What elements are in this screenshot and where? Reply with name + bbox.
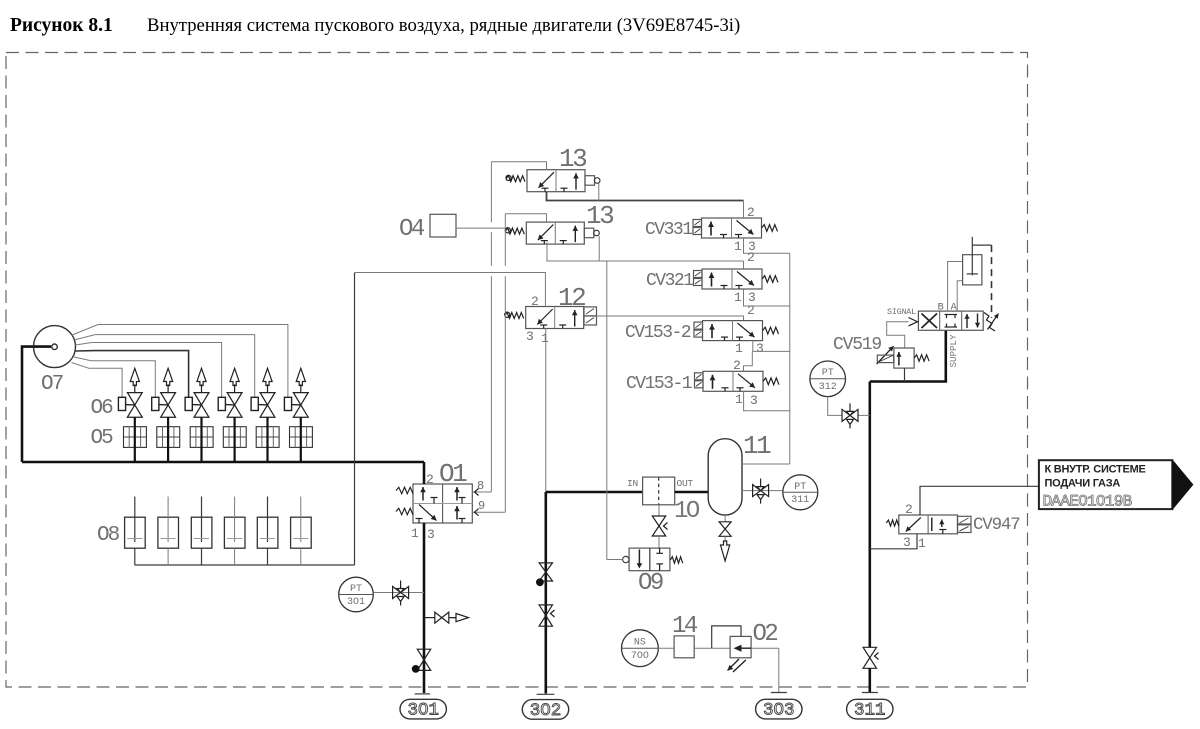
line tag 301 [400,699,446,719]
wire: valve 01 down to 301 [423,523,426,693]
wire: bypass over regulator 02 [712,626,741,648]
wire: valve 13 upper output to CV331 port 2 [547,192,744,201]
wire: CV153-1 port 2 hook to exhaust of CV153-2 [744,351,753,371]
svg-text:1: 1 [734,290,742,305]
wire: valve 06-2 down through 05 to manifold [167,417,169,462]
wire: CV153-2 port 3 to exhaust header [753,341,790,352]
wire: 311 riser bottom [868,668,871,692]
gauge valve at PT301 [393,587,401,599]
wire: rod top line [972,244,991,246]
svg-text:B: B [938,302,944,314]
svg-text:8: 8 [477,479,484,493]
svg-text:PT: PT [822,368,834,379]
wire: filter bottom to drain valve [658,505,660,516]
vent arrow 301 branch [456,614,469,622]
dashed pilot line from cylinder to relief [991,245,993,318]
svg-text:O5: O5 [91,427,114,450]
svg-text:2: 2 [747,303,755,318]
wire: port A to cylinder [957,281,962,311]
line tag 303 [756,699,802,719]
svg-text:A: A [951,302,958,314]
wire: valve 01 port 8 to x=491 [472,491,491,493]
pressure transmitter PT 312 [810,361,846,397]
svg-text:3: 3 [903,535,911,550]
drain valve 301 branch [435,612,442,623]
wire: CV947 port 1 from supply riser [870,534,917,549]
svg-text:1: 1 [918,536,926,551]
wire: valve 06-1 down through 05 to manifold [134,417,136,462]
filter 10 [643,477,675,505]
wire: 14 to regulator 02 [694,647,730,649]
svg-text:2: 2 [747,205,755,220]
valve 12 (pilot valve) [526,307,584,329]
valve 13 (lower pilot valve) [526,222,584,244]
speed switch NS 700 [622,630,659,667]
wire: actuator drop of valve 13 upper [598,183,600,200]
wire: thick bottom manifold [22,461,424,464]
wire: 08-5 to return manifold [267,548,269,565]
wire: NS700 to device 14 [658,647,674,649]
valve 06-3 (shut-off valve with vent arrow) [194,393,209,405]
wire: thick supply to pilot-operated valve [870,330,946,381]
valve 06-1 (shut-off valve with vent arrow) [127,393,142,405]
wire: valve 13 lower output to CV321 port 2 [547,242,744,261]
shut-off valve lower on 302 [539,605,552,616]
starting air cylinder unit 08-2 [158,517,179,548]
svg-text:3O2: 3O2 [530,701,562,721]
valve 06-6 (shut-off valve with vent arrow) [293,393,308,405]
svg-text:3O3: 3O3 [763,701,795,721]
svg-text:2: 2 [531,294,539,309]
wire: vertical x=491 (valve 13 upper pilot to valve 01 port 8) [490,162,492,223]
svg-text:NS: NS [634,638,646,649]
wire: pilot line from 07 to valve 06-6 [72,325,288,398]
valve 13 (upper pilot valve) [527,170,585,192]
solenoid valve CV947 [899,515,958,534]
springs of valve 01 [396,487,413,493]
wire: filter OUT to vessel 11 [675,491,709,494]
svg-text:1O: 1O [674,498,700,525]
shut-off valve on 301 line [417,649,430,660]
svg-text:312: 312 [819,382,837,393]
pressure transmitter PT 301 [339,577,374,612]
starting air cylinder unit 08-6 [291,517,312,548]
svg-text:1: 1 [734,239,742,254]
pilot port circle of 09 [623,556,629,562]
gauge valve at PT312 [842,409,850,421]
air vessel 11 [708,439,742,515]
svg-text:2: 2 [747,250,755,265]
wire: exhaust header x=790 down to vessel 11 [789,253,791,464]
starting air cylinder unit 08-5 [257,517,278,548]
line tag 302 [522,700,568,720]
wire: valve 12 port 1 down to 302 junction [545,329,547,493]
wire: 04 to line x=505 [456,227,505,229]
solenoid valve CV331 [702,218,762,238]
flame arrestor 05-6 [290,427,313,448]
wire: CV321 port 2 stub [743,261,745,269]
wire: vessel to exhaust header [742,463,790,465]
svg-text:3: 3 [427,527,435,542]
pilot actuator of valve 13 upper [585,176,595,186]
solenoid of CV947 [958,516,972,524]
svg-text:ПОДАЧИ ГАЗА: ПОДАЧИ ГАЗА [1045,478,1121,490]
svg-text:O1: O1 [439,459,467,489]
wire: pilot line from 07 to valve 06-3 [75,351,188,398]
svg-text:CV153-2: CV153-2 [625,323,691,343]
svg-text:O7: O7 [41,373,63,396]
svg-text:3: 3 [526,329,534,344]
svg-text:11: 11 [743,431,771,461]
svg-text:CV519: CV519 [833,335,881,355]
wire: supply header into valve 12 port 2 [355,273,546,307]
shut-off valve on 311 riser [863,647,876,658]
wire: vertical x=505 (valve 13 lower pilot to valve 01 port 9) [504,214,506,266]
flame arrestor 05-3 [190,427,213,448]
svg-text:O6: O6 [91,397,114,420]
device 14 [674,636,694,658]
relief arrow of 02 [728,659,746,672]
wire: pilot line from 07 to valve 06-2 [74,357,155,397]
valve 06-4 (shut-off valve with vent arrow) [227,393,242,405]
wire: pilot of valve 13 upper from line x=491 [491,162,546,170]
gauge valve at PT311 [753,485,761,497]
wire: CV519 to supply line [904,368,906,381]
svg-text:9: 9 [478,499,485,513]
banner: to internal gas supply system [1039,460,1172,509]
spring of 09 [670,557,683,563]
svg-text:1: 1 [735,341,743,356]
svg-text:PT: PT [350,584,362,595]
drain valve below vessel 11 [719,522,731,529]
wire: thick supply from node 07 to left and down to manifold [22,347,34,462]
wire: vessel bottom drain [724,515,726,522]
air distributor 07 [34,326,76,368]
shut-off valve upper on 302 [539,563,552,572]
wire: CV321 port 3 to exhaust header [744,289,790,306]
main starting valve 01 [413,484,472,523]
dashed border frame [6,53,1028,688]
pressure transmitter PT 311 [783,475,818,510]
pilot operated 3-position valve (SIGNAL) [918,311,983,330]
wire: CV331 port 2 stub [743,201,745,219]
valve 06-2 (shut-off valve with vent arrow) [161,393,176,405]
pilot device 04 [430,214,456,237]
wire: port B to cylinder [948,262,963,312]
line end tick 311 [862,692,878,694]
flame arrestor 05-2 [157,427,180,448]
spring of CV947 [886,520,899,526]
wire: 302 to filter 10 IN [546,491,643,494]
wire: valve 06-3 down through 05 to manifold [200,417,202,462]
junction dot near valve [412,666,419,673]
wire: pilot line from 07 to valve 06-5 [74,335,255,398]
flame arrestor 05-5 [256,427,279,448]
starting air cylinder unit 08-4 [224,517,245,548]
svg-text:CV947: CV947 [973,515,1020,535]
pilot actuator of valve 13 lower [584,228,594,238]
svg-text:3O1: 3O1 [347,597,365,608]
svg-text:1: 1 [735,392,743,407]
line tag 311 [847,699,893,719]
wire: drain branch 301 [424,617,435,619]
solenoid drain valve 09 [629,548,670,571]
signal arrow into valve [909,318,918,326]
wire: actuator drop of valve 13 lower [598,236,600,261]
flame arrestor 05-1 [124,427,147,448]
svg-text:2: 2 [426,472,434,487]
line end tick 303 [771,692,787,694]
wire: line x=607 from header y=261 down to 09 [606,261,608,560]
svg-text:CV321: CV321 [646,271,693,291]
svg-text:IN: IN [627,478,638,489]
svg-text:1: 1 [541,331,549,346]
wire: 302 main riser [544,492,547,694]
wire: 08-1 to return manifold [134,548,136,565]
svg-text:311: 311 [854,701,886,721]
wire: pilot of valve 13 lower from line x=505 [505,214,546,222]
svg-text:SUPPLY: SUPPLY [948,334,959,368]
svg-text:2: 2 [733,358,741,373]
svg-text:O9: O9 [638,570,663,597]
svg-text:К ВНУТР. СИСТЕМЕ: К ВНУТР. СИСТЕМЕ [1045,464,1146,476]
svg-text:O4: O4 [399,216,425,243]
wire: 08-6 to return manifold [300,548,302,565]
valve 06-5 (shut-off valve with vent arrow) [260,393,275,405]
svg-text:PT: PT [794,482,806,493]
wire: valve 06-6 down through 05 to manifold [300,417,302,462]
svg-text:SIGNAL: SIGNAL [887,307,916,317]
wire: manifold into valve 01 port 2 [423,462,426,484]
wire: cylinder return manifold [135,564,355,566]
flame arrestor 05-4 [223,427,246,448]
svg-text:1: 1 [411,526,419,541]
svg-text:O2: O2 [753,621,778,648]
svg-text:2: 2 [905,502,913,517]
solenoid valve CV153-1 [703,371,763,391]
svg-text:7OO: 7OO [631,651,649,662]
wire: valve 12 output to CV153-2 port 2 [597,316,744,321]
gas admission cylinder actuator [963,255,982,285]
svg-text:3: 3 [756,341,764,356]
wire: PT301 to main line [373,592,424,594]
pressure regulator CV519 [894,348,914,368]
wire: 08-4 to return manifold [234,548,236,565]
svg-text:CV331: CV331 [645,220,692,240]
vent arrow below vessel 11 [724,536,726,541]
wire: PT312 to supply riser [828,397,842,416]
wire: CV153-1 port 3 to exhaust header [744,391,790,411]
starting air cylinder unit 08-1 [125,517,146,548]
svg-text:13: 13 [559,144,586,174]
solenoid valve CV153-2 [703,321,763,341]
svg-text:311: 311 [791,495,809,506]
svg-text:3: 3 [750,393,758,408]
line end tick 302 [537,693,555,695]
line end tick 301 [415,693,430,695]
wire: 02 to 303 drop [751,647,779,649]
pressure regulator 02 [730,636,751,657]
solenoid actuator of valve 12 [584,307,597,316]
wire: pilot line from 07 to valve 06-1 [72,363,123,398]
wire: CV331 port 3 to exhaust header [744,238,790,253]
wire: pilot line from 07 to valve 06-4 [75,343,221,398]
drain valve below filter 10 [652,516,665,526]
wire: 08-3 to return manifold [201,548,203,565]
wire: valve 06-5 down through 05 to manifold [266,417,268,462]
wire: vessel to PT311 [742,490,783,492]
wire: thick gas supply riser x=870 [868,382,871,648]
svg-text:O8: O8 [97,524,120,547]
wire: signal line to CV519 [887,322,909,348]
svg-text:12: 12 [558,283,585,313]
svg-text:DAAEO1O19B: DAAEO1O19B [1043,493,1132,511]
svg-text:3O1: 3O1 [407,701,439,721]
svg-text:14: 14 [672,613,698,640]
svg-text:OUT: OUT [677,478,694,489]
svg-text:13: 13 [586,201,613,231]
wire: riser x=354.5 from pilot header down to cylinder return manifold [354,273,356,566]
svg-text:CV153-1: CV153-1 [626,374,692,394]
wire: 08-2 to return manifold [167,548,169,565]
pilot relief at right of SIGNAL valve [984,313,995,332]
wire: drain valve to valve 09 [658,536,660,548]
junction dot 302 valve [537,579,544,586]
wire: valve 01 port 9 to x=505 [472,511,505,513]
wire: valve 06-4 down through 05 to manifold [234,417,236,462]
solenoid valve CV321 [702,269,762,289]
wire: CV947 port 2 to gas system banner [920,486,1039,515]
starting air cylinder unit 08-3 [191,517,212,548]
